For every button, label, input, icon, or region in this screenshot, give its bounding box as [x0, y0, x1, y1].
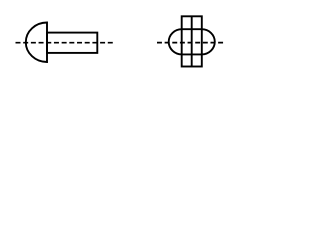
rivet shank: [47, 33, 97, 53]
centerline of installed rivet (right view): [157, 42, 223, 44]
seam between the two plates: [191, 16, 193, 66]
joined plates (two plates in section): [182, 16, 202, 66]
centerline of rivet (left view): [16, 42, 113, 44]
rivet round head (half-disc): [26, 23, 47, 63]
installed rivet with two formed heads (stadium outline): [169, 29, 215, 54]
